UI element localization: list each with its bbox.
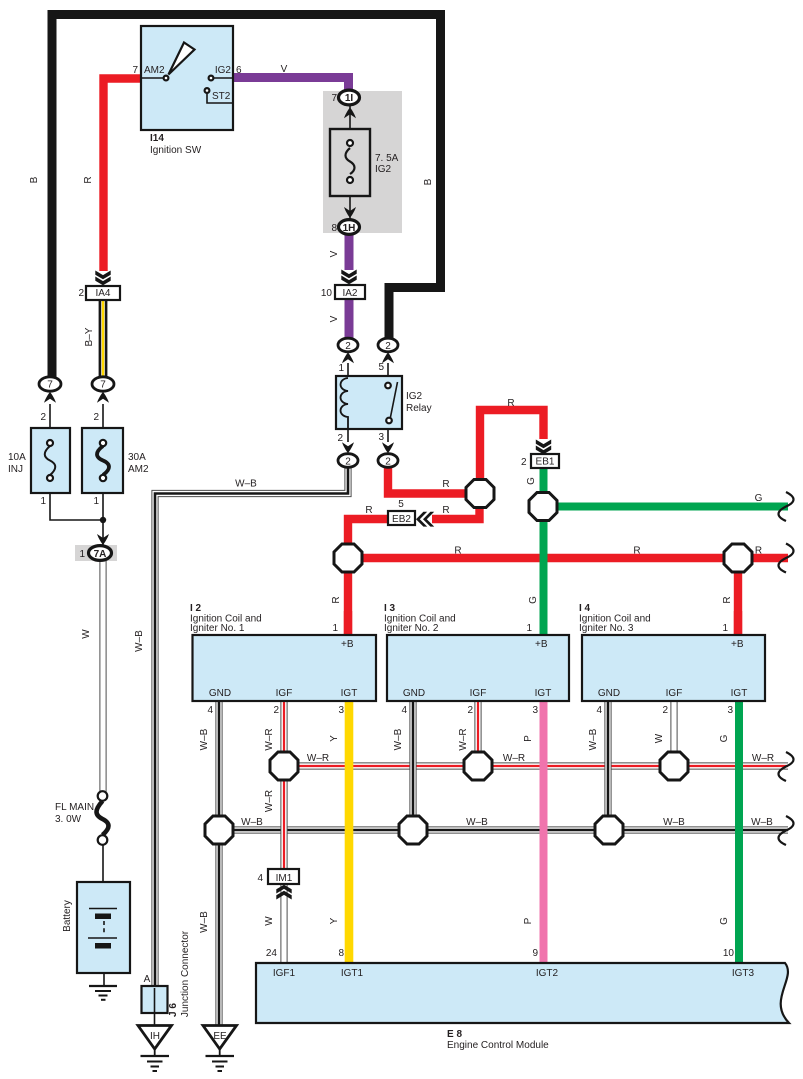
- svg-text:W–R: W–R: [264, 790, 275, 812]
- svg-text:I 3: I 3: [384, 603, 396, 614]
- svg-text:B–Y: B–Y: [84, 327, 95, 346]
- svg-text:2: 2: [345, 456, 351, 467]
- svg-text:1: 1: [79, 549, 85, 560]
- svg-text:V: V: [329, 315, 340, 322]
- svg-text:7: 7: [47, 380, 53, 391]
- svg-text:R: R: [722, 596, 733, 603]
- svg-text:E 8: E 8: [447, 1029, 462, 1040]
- svg-text:IM1: IM1: [276, 873, 293, 884]
- svg-text:10: 10: [321, 288, 333, 299]
- svg-text:J 6: J 6: [168, 1003, 179, 1017]
- svg-text:Igniter No. 3: Igniter No. 3: [579, 623, 634, 634]
- svg-text:W: W: [264, 916, 275, 926]
- svg-text:IA2: IA2: [342, 288, 357, 299]
- svg-text:W–B: W–B: [588, 728, 599, 750]
- svg-text:1: 1: [40, 496, 46, 507]
- svg-text:2: 2: [273, 705, 279, 716]
- svg-text:EB2: EB2: [392, 514, 411, 525]
- svg-text:IGF1: IGF1: [273, 968, 296, 979]
- svg-text:G: G: [719, 917, 730, 925]
- svg-text:IGF: IGF: [470, 688, 487, 699]
- svg-text:R: R: [442, 505, 449, 516]
- svg-text:EE: EE: [213, 1031, 227, 1042]
- svg-text:W–B: W–B: [235, 479, 257, 490]
- svg-text:G: G: [526, 477, 537, 485]
- svg-text:2: 2: [78, 288, 84, 299]
- svg-text:W: W: [81, 629, 92, 639]
- svg-text:Igniter No. 1: Igniter No. 1: [190, 623, 245, 634]
- svg-text:IGF: IGF: [276, 688, 293, 699]
- svg-text:IGT: IGT: [731, 688, 748, 699]
- svg-text:2: 2: [521, 457, 527, 468]
- svg-text:4: 4: [207, 705, 213, 716]
- svg-text:1: 1: [722, 623, 728, 634]
- svg-text:W–B: W–B: [199, 911, 210, 933]
- svg-text:R: R: [365, 505, 372, 516]
- svg-text:Ignition SW: Ignition SW: [150, 145, 202, 156]
- svg-text:W: W: [654, 733, 665, 743]
- svg-text:IG2: IG2: [215, 65, 232, 76]
- svg-text:G: G: [755, 493, 763, 504]
- svg-text:7: 7: [100, 380, 106, 391]
- svg-text:7A: 7A: [94, 549, 107, 560]
- svg-text:3: 3: [338, 705, 344, 716]
- svg-text:2: 2: [467, 705, 473, 716]
- svg-text:AM2: AM2: [128, 464, 149, 475]
- svg-text:G: G: [528, 596, 539, 604]
- svg-text:2: 2: [345, 341, 351, 352]
- svg-text:W–B: W–B: [466, 817, 488, 828]
- svg-text:R: R: [507, 398, 514, 409]
- svg-text:1: 1: [93, 496, 99, 507]
- svg-text:5: 5: [398, 499, 404, 510]
- svg-text:8: 8: [338, 948, 344, 959]
- svg-text:R: R: [755, 546, 762, 557]
- svg-text:7. 5A: 7. 5A: [375, 153, 399, 164]
- svg-text:1I: 1I: [345, 93, 354, 104]
- svg-text:W–R: W–R: [503, 753, 525, 764]
- svg-text:7: 7: [331, 93, 337, 104]
- svg-text:W–R: W–R: [752, 753, 774, 764]
- svg-text:Relay: Relay: [406, 403, 432, 414]
- svg-text:B: B: [423, 178, 434, 185]
- svg-text:1H: 1H: [343, 223, 356, 234]
- svg-text:B: B: [29, 176, 40, 183]
- svg-text:IGT1: IGT1: [341, 968, 364, 979]
- svg-text:2: 2: [93, 412, 99, 423]
- svg-text:IA4: IA4: [95, 288, 110, 299]
- svg-text:8: 8: [331, 223, 337, 234]
- svg-text:IGT2: IGT2: [536, 968, 559, 979]
- svg-text:30A: 30A: [128, 452, 146, 463]
- svg-text:2: 2: [385, 456, 391, 467]
- svg-text:R: R: [454, 546, 461, 557]
- svg-text:IG2: IG2: [375, 164, 392, 175]
- svg-text:10A: 10A: [8, 452, 26, 463]
- svg-text:3. 0W: 3. 0W: [55, 814, 82, 825]
- svg-text:W–R: W–R: [264, 728, 275, 750]
- svg-text:I 2: I 2: [190, 603, 202, 614]
- svg-text:Junction Connector: Junction Connector: [180, 930, 191, 1017]
- svg-text:P: P: [523, 735, 534, 742]
- svg-text:EB1: EB1: [536, 457, 555, 468]
- svg-text:1: 1: [332, 623, 338, 634]
- svg-text:2: 2: [40, 412, 46, 423]
- svg-text:ST2: ST2: [212, 91, 231, 102]
- svg-text:10: 10: [723, 948, 735, 959]
- svg-text:3: 3: [532, 705, 538, 716]
- svg-text:Battery: Battery: [62, 900, 73, 932]
- svg-text:W–B: W–B: [393, 728, 404, 750]
- svg-text:4: 4: [596, 705, 602, 716]
- svg-text:W–R: W–R: [458, 728, 469, 750]
- svg-text:P: P: [523, 917, 534, 924]
- svg-text:R: R: [633, 546, 640, 557]
- svg-text:R: R: [331, 596, 342, 603]
- svg-text:A: A: [144, 974, 151, 985]
- svg-text:4: 4: [401, 705, 407, 716]
- svg-text:IGT: IGT: [535, 688, 552, 699]
- svg-text:9: 9: [532, 948, 538, 959]
- svg-text:3: 3: [727, 705, 733, 716]
- svg-text:5: 5: [378, 362, 384, 373]
- svg-text:+B: +B: [535, 639, 548, 650]
- svg-text:INJ: INJ: [8, 464, 23, 475]
- svg-text:6: 6: [236, 65, 242, 76]
- svg-text:3: 3: [378, 432, 384, 443]
- svg-text:1: 1: [526, 623, 532, 634]
- svg-text:2: 2: [385, 341, 391, 352]
- svg-text:I14: I14: [150, 133, 164, 144]
- svg-text:IH: IH: [150, 1031, 160, 1042]
- svg-text:IGF: IGF: [666, 688, 683, 699]
- svg-text:IGT: IGT: [341, 688, 358, 699]
- svg-text:FL MAIN: FL MAIN: [55, 802, 94, 813]
- svg-text:W–B: W–B: [241, 817, 263, 828]
- svg-text:7: 7: [132, 65, 138, 76]
- svg-text:GND: GND: [209, 688, 231, 699]
- svg-text:G: G: [719, 734, 730, 742]
- svg-text:2: 2: [662, 705, 668, 716]
- svg-text:4: 4: [257, 873, 263, 884]
- svg-text:Y: Y: [329, 917, 340, 924]
- svg-text:GND: GND: [598, 688, 620, 699]
- svg-text:+B: +B: [731, 639, 744, 650]
- svg-text:W–R: W–R: [307, 753, 329, 764]
- svg-text:V: V: [329, 250, 340, 257]
- svg-text:W–B: W–B: [751, 817, 773, 828]
- svg-text:I 4: I 4: [579, 603, 591, 614]
- svg-text:W–B: W–B: [134, 630, 145, 652]
- svg-text:W–B: W–B: [663, 817, 685, 828]
- svg-text:V: V: [281, 64, 288, 75]
- svg-text:1: 1: [338, 363, 344, 374]
- svg-text:R: R: [442, 479, 449, 490]
- svg-text:AM2: AM2: [144, 65, 165, 76]
- svg-text:IGT3: IGT3: [732, 968, 755, 979]
- svg-text:R: R: [83, 176, 94, 183]
- svg-text:Y: Y: [329, 735, 340, 742]
- svg-text:2: 2: [337, 433, 343, 444]
- svg-text:+B: +B: [341, 639, 354, 650]
- svg-text:Igniter No. 2: Igniter No. 2: [384, 623, 439, 634]
- svg-text:W–B: W–B: [199, 728, 210, 750]
- svg-text:24: 24: [266, 948, 278, 959]
- svg-text:Engine Control Module: Engine Control Module: [447, 1040, 549, 1051]
- svg-text:GND: GND: [403, 688, 425, 699]
- svg-text:IG2: IG2: [406, 391, 423, 402]
